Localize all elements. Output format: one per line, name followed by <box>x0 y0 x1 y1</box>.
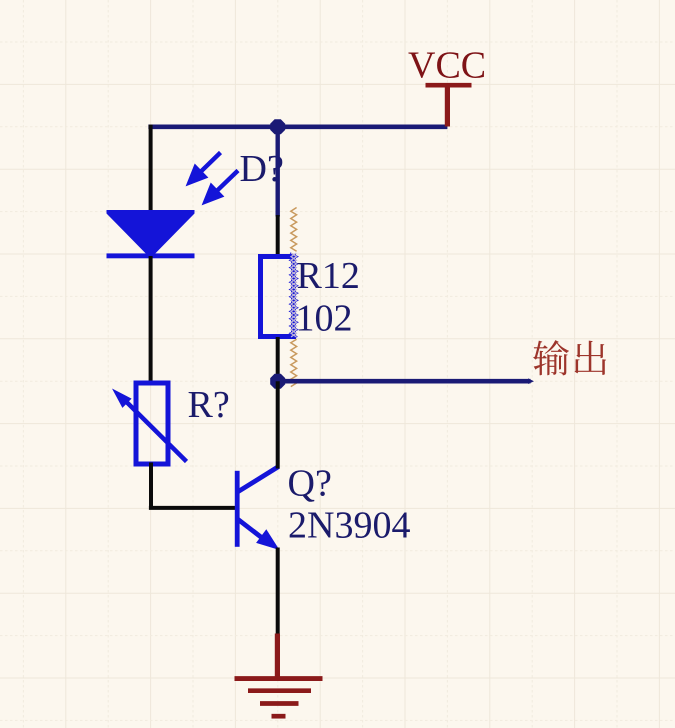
wire: rail to D? anode <box>149 125 153 214</box>
light arrows into D? <box>190 153 239 202</box>
variable resistor R? <box>112 383 187 464</box>
wire: D? cathode to R? pin 1 <box>149 256 153 383</box>
svg-text:R12: R12 <box>297 255 360 297</box>
wire: to Q? base <box>149 506 236 510</box>
zigzag resistor overlay (artifact) <box>291 208 297 252</box>
wire: output node to Q? collector <box>276 381 280 468</box>
junction: output node <box>270 374 285 389</box>
svg-text:2N3904: 2N3904 <box>288 505 410 547</box>
pin: R12 top (black) <box>276 215 280 256</box>
transistor Q? (NPN) <box>235 467 280 550</box>
zigzag lattice over R12 edge <box>290 253 297 337</box>
ground <box>235 634 323 717</box>
wire: Q? emitter to ground <box>276 548 280 635</box>
svg-text:Q?: Q? <box>288 462 332 504</box>
junction: top node <box>270 119 285 134</box>
resistor R12 <box>261 257 294 337</box>
wire: output net <box>278 379 531 384</box>
svg-text:102: 102 <box>296 297 353 339</box>
wire: junction to R12 pin 1 <box>276 127 280 217</box>
pin: R12 bottom to output node <box>276 337 280 381</box>
svg-text:R?: R? <box>188 384 230 426</box>
power symbol VCC <box>426 85 472 127</box>
svg-text:VCC: VCC <box>408 45 486 87</box>
wire VCC rail (node top) <box>148 125 447 130</box>
photodiode D? <box>107 210 195 258</box>
wire: R? pin 2 down <box>149 463 153 508</box>
net label 输出 (output) <box>533 340 606 375</box>
